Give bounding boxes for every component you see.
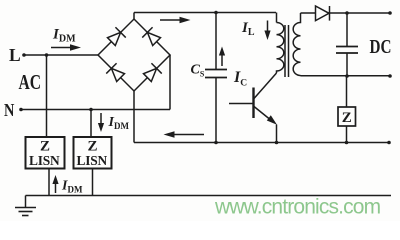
transformer core <box>284 25 286 77</box>
wire LISN2 vertical from N <box>90 110 92 138</box>
node output cap top junction <box>345 11 349 15</box>
svg-text:N: N <box>4 99 15 120</box>
node DC+ terminal <box>388 11 392 15</box>
svg-text:IDM: IDM <box>52 27 76 45</box>
node DC- terminal <box>388 74 392 78</box>
arrow IDM top-left rightward <box>51 44 81 50</box>
node L terminal <box>22 53 26 57</box>
svg-text:IC: IC <box>233 69 247 89</box>
transformer primary winding <box>277 23 284 74</box>
wire LISN1 bottom lead <box>48 169 50 196</box>
node Cs return junction <box>214 141 218 145</box>
LISN box 2 <box>74 137 112 169</box>
wire L line to bridge left node <box>24 54 98 56</box>
capacitor Cs branch top lead <box>215 13 217 70</box>
arrow IL downward <box>264 21 270 41</box>
svg-text:IDM: IDM <box>61 179 83 195</box>
wire secondary top rail <box>301 12 391 14</box>
diode output rectifier <box>316 6 330 21</box>
svg-text:IL: IL <box>241 20 255 38</box>
arrow IDM bottom upward <box>52 175 58 193</box>
LISN box 1 <box>26 137 65 169</box>
arrow top rail rightward <box>160 17 191 23</box>
arrow IDM middle downward <box>98 113 104 132</box>
capacitor Cs plates <box>205 69 227 71</box>
wire LISN2 bottom lead <box>92 169 94 196</box>
wire N line <box>21 109 170 111</box>
transistor Q1 base bar <box>252 88 254 119</box>
capacitor output bottom lead <box>346 53 348 76</box>
svg-text:LISN: LISN <box>29 153 60 168</box>
diode D4 bottom-right <box>142 63 162 83</box>
ground symbol <box>15 196 36 216</box>
diode D2 top-right <box>142 27 162 47</box>
wire emitter down to return rail <box>276 125 278 143</box>
wire LISN1 vertical from L <box>46 55 48 137</box>
wire N up to bridge right node <box>169 55 171 110</box>
arrow IC upward <box>219 47 225 67</box>
capacitor output top lead <box>346 13 348 47</box>
wire bridge bottom stub crossing N <box>133 91 135 143</box>
wire return rail <box>134 142 389 144</box>
svg-text:Z: Z <box>342 110 352 126</box>
node output cap bottom junction <box>345 74 349 78</box>
node Cs top junction <box>214 11 218 15</box>
node return rail end <box>387 141 391 145</box>
wire Z load top lead <box>346 76 348 107</box>
transistor Q1 collector / primary bottom lead <box>254 73 277 99</box>
wire bridge top stub <box>133 13 135 20</box>
bridge rectifier diamond <box>98 19 170 91</box>
svg-text:AC: AC <box>19 71 42 95</box>
wire Z load bottom lead <box>346 126 348 143</box>
arrow return rail leftward <box>164 131 205 137</box>
wire top rail to transformer <box>134 12 276 14</box>
capacitor Cs bottom lead <box>215 78 217 143</box>
transistor Q1 base wire <box>229 103 253 105</box>
svg-text:LISN: LISN <box>77 153 108 168</box>
node N terminal <box>19 108 23 112</box>
capacitor output plates <box>336 46 358 48</box>
wire secondary bottom rail <box>301 75 391 77</box>
node junction N/LISN2 <box>89 108 93 112</box>
svg-text:CS: CS <box>191 63 205 79</box>
node emitter return junction <box>275 141 279 145</box>
svg-text:www.cntronics.com: www.cntronics.com <box>214 196 381 219</box>
transformer secondary winding <box>293 13 300 76</box>
wire earth rail <box>26 195 392 197</box>
wire primary top drop <box>276 13 278 23</box>
node Z return junction <box>345 141 349 145</box>
transistor Q1 emitter with arrow <box>254 107 277 125</box>
diode D1 top-left <box>106 27 126 47</box>
diode D3 bottom-left <box>106 63 126 83</box>
svg-text:IDM: IDM <box>108 115 130 131</box>
svg-text:L: L <box>9 45 21 65</box>
svg-text:DC: DC <box>370 35 392 58</box>
impedance Z box <box>338 107 356 126</box>
node junction L/LISN1 <box>45 53 49 57</box>
